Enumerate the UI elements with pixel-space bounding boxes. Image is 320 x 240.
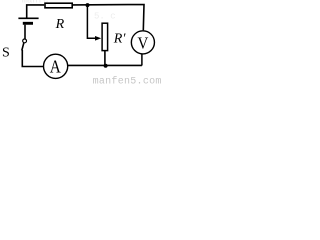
svg-text:S: S: [2, 46, 10, 61]
battery long plate: [18, 17, 38, 19]
voltmeter bottom lead: [141, 54, 143, 65]
resistor R: [45, 3, 72, 8]
node junction dot bottom: [104, 64, 108, 68]
battery short plate: [23, 22, 33, 25]
svg-text:R′: R′: [113, 32, 127, 47]
switch S pivot circle: [23, 39, 27, 43]
svg-text:V: V: [137, 35, 148, 53]
rheostat wiper arrowhead: [95, 36, 101, 41]
rheostat bottom lead: [104, 51, 106, 66]
rheostat R' body: [102, 23, 108, 50]
svg-text:A: A: [50, 57, 61, 77]
wire resistor to top-right corner, down to voltmeter: [73, 5, 144, 31]
switch lever: [22, 43, 24, 51]
svg-text:manfen5.com: manfen5.com: [93, 76, 161, 87]
svg-text:5. c: 5. c: [94, 11, 116, 21]
battery bottom lead: [24, 25, 26, 39]
voltmeter V: [131, 31, 154, 54]
node junction dot top: [86, 3, 90, 7]
wire bottom-left (switch down and right to ammeter): [22, 50, 43, 67]
svg-text:R: R: [55, 17, 65, 32]
ammeter A: [44, 54, 68, 78]
wire top-left (battery to resistor): [27, 5, 45, 18]
wire rheostat wiper from top node: [87, 5, 95, 38]
wire bottom (ammeter to voltmeter drop): [68, 64, 142, 66]
